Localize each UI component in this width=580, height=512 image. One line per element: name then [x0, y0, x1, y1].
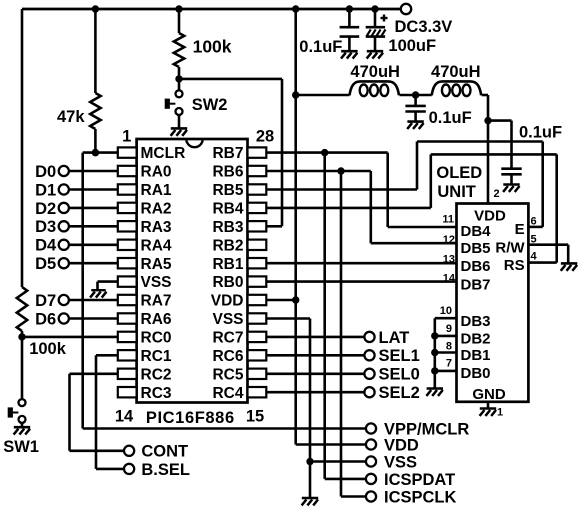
svg-text:MCLR: MCLR — [141, 145, 186, 162]
svg-text:DB7: DB7 — [461, 276, 491, 293]
svg-text:RB5: RB5 — [212, 182, 243, 199]
svg-text:DB0: DB0 — [461, 365, 491, 382]
svg-text:0.1uF: 0.1uF — [519, 123, 562, 141]
svg-text:5: 5 — [531, 234, 537, 246]
svg-text:DB2: DB2 — [461, 330, 491, 347]
svg-text:RC0: RC0 — [141, 330, 172, 347]
svg-text:15: 15 — [246, 407, 264, 425]
svg-text:ICSPCLK: ICSPCLK — [384, 488, 457, 506]
svg-text:0.1uF: 0.1uF — [429, 109, 472, 127]
svg-text:28: 28 — [256, 128, 274, 146]
svg-text:D5: D5 — [35, 255, 56, 273]
svg-text:RA3: RA3 — [141, 219, 172, 236]
svg-text:1: 1 — [122, 127, 131, 145]
svg-text:PIC16F886: PIC16F886 — [146, 409, 235, 427]
svg-text:RA2: RA2 — [141, 201, 172, 218]
svg-text:12: 12 — [443, 234, 455, 246]
svg-text:13: 13 — [443, 254, 455, 266]
svg-text:9: 9 — [446, 323, 452, 335]
svg-text:RA4: RA4 — [141, 237, 172, 254]
svg-text:R/W: R/W — [495, 240, 525, 257]
svg-text:470uH: 470uH — [350, 63, 400, 81]
svg-text:RA5: RA5 — [141, 256, 172, 273]
svg-text:RC1: RC1 — [141, 348, 172, 365]
svg-text:SEL1: SEL1 — [379, 347, 420, 365]
svg-text:OLED: OLED — [436, 164, 482, 182]
svg-text:DB6: DB6 — [461, 258, 491, 275]
svg-text:DB5: DB5 — [461, 240, 491, 257]
svg-text:CONT: CONT — [141, 443, 188, 461]
svg-text:ICSPDAT: ICSPDAT — [384, 471, 455, 489]
svg-text:D1: D1 — [35, 181, 56, 199]
svg-text:VDD: VDD — [384, 436, 419, 454]
svg-text:1: 1 — [497, 407, 503, 419]
svg-text:D3: D3 — [35, 218, 56, 236]
svg-text:4: 4 — [531, 251, 538, 263]
svg-text:SEL0: SEL0 — [379, 366, 420, 384]
svg-text:UNIT: UNIT — [437, 183, 476, 201]
svg-text:DC3.3V: DC3.3V — [395, 18, 453, 36]
svg-text:RB4: RB4 — [212, 201, 243, 218]
svg-text:VDD: VDD — [211, 293, 244, 310]
svg-text:2: 2 — [494, 188, 500, 200]
svg-text:RC4: RC4 — [212, 385, 243, 402]
svg-text:SEL2: SEL2 — [379, 384, 420, 402]
svg-text:470uH: 470uH — [431, 63, 481, 81]
svg-text:RA0: RA0 — [141, 164, 172, 181]
svg-text:RS: RS — [504, 257, 525, 274]
svg-text:RA7: RA7 — [141, 293, 172, 310]
svg-text:RC5: RC5 — [212, 366, 243, 383]
svg-text:14: 14 — [115, 407, 134, 425]
svg-text:RC3: RC3 — [141, 385, 172, 402]
svg-text:RB7: RB7 — [212, 145, 243, 162]
svg-text:SW2: SW2 — [192, 96, 228, 114]
svg-text:D0: D0 — [35, 163, 56, 181]
svg-text:RC6: RC6 — [212, 348, 243, 365]
svg-text:14: 14 — [443, 273, 456, 285]
svg-text:47k: 47k — [57, 108, 85, 126]
svg-text:D7: D7 — [35, 292, 56, 310]
svg-text:RC2: RC2 — [141, 366, 172, 383]
svg-text:RA6: RA6 — [141, 311, 172, 328]
svg-text:D2: D2 — [35, 200, 56, 218]
svg-text:100k: 100k — [193, 37, 232, 57]
svg-text:100uF: 100uF — [388, 37, 436, 55]
svg-text:VSS: VSS — [384, 453, 417, 471]
svg-text:LAT: LAT — [379, 329, 410, 347]
svg-text:11: 11 — [442, 214, 454, 226]
svg-text:8: 8 — [446, 341, 452, 353]
svg-text:VDD: VDD — [474, 207, 506, 224]
svg-text:RB6: RB6 — [212, 164, 243, 181]
svg-text:SW1: SW1 — [3, 438, 39, 456]
svg-text:RB3: RB3 — [212, 219, 243, 236]
svg-text:7: 7 — [446, 358, 452, 370]
svg-text:GND: GND — [472, 386, 506, 403]
svg-text:B.SEL: B.SEL — [141, 461, 190, 479]
svg-text:DB3: DB3 — [461, 313, 491, 330]
svg-text:E: E — [515, 221, 525, 238]
svg-text:VSS: VSS — [141, 274, 172, 291]
svg-text:100k: 100k — [29, 340, 67, 358]
svg-text:RA1: RA1 — [141, 182, 172, 199]
svg-text:10: 10 — [440, 305, 452, 317]
svg-text:6: 6 — [531, 216, 537, 228]
svg-text:RB0: RB0 — [212, 274, 243, 291]
svg-text:RB1: RB1 — [212, 256, 243, 273]
svg-text:DB4: DB4 — [461, 223, 492, 240]
svg-text:0.1uF: 0.1uF — [299, 38, 342, 56]
svg-text:D6: D6 — [35, 310, 56, 328]
svg-text:D4: D4 — [35, 237, 57, 255]
svg-text:RB2: RB2 — [212, 237, 243, 254]
svg-text:RC7: RC7 — [212, 330, 243, 347]
svg-text:DB1: DB1 — [461, 347, 491, 364]
svg-text:VSS: VSS — [212, 311, 243, 328]
